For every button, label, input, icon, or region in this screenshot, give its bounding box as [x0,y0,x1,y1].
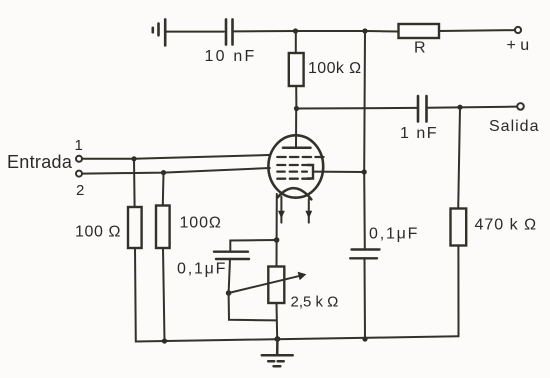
node I (cathode node) [274,237,280,243]
node D (output / 470k junction) [457,105,462,110]
resistor R4 470kΩ [451,107,467,336]
terminal Entrada 2 [76,171,82,177]
svg-text:0,1μF: 0,1μF [369,226,419,243]
wire: bottom rail [136,336,459,341]
resistor R2 100Ω (left) [128,159,142,342]
resistor R1 100kΩ (anode load) [289,31,304,109]
chassis ground (supply return, rotated left) [153,19,165,45]
svg-text:R: R [414,40,426,57]
wire: input 2 to tube [82,168,270,174]
tube V1 heater lead left with arrow [280,197,282,223]
svg-text:1 nF: 1 nF [400,125,438,142]
svg-text:100k Ω: 100k Ω [308,60,362,77]
wire: C 1nF to Salida terminal [428,107,517,108]
wire: cathode node to C 0.1µF top [230,240,276,251]
node B (junction top rail / screen feed) [362,28,367,33]
tube V1 anode lead [295,109,297,148]
node G (input1 / 100Ω junction) [131,156,136,161]
resistor R3 100Ω (right) [156,173,170,341]
svg-text:Entrada: Entrada [7,152,73,172]
terminal +U [515,27,521,33]
node A (junction top rail / 100k) [293,28,298,33]
svg-text:470 k Ω: 470 k Ω [475,217,538,234]
svg-text:1: 1 [75,137,83,154]
wire: input 1 to tube [82,155,269,159]
wire: node B to resistor R [365,30,398,33]
capacitor C 10nF [226,19,233,44]
wire: ground to C 10nF [166,31,224,33]
tube V1 grid 1 (dashed) [277,156,323,158]
svg-text:2,5 k Ω: 2,5 k Ω [291,294,339,311]
terminal Entrada 1 [76,156,82,162]
potentiometer P1 wiper arrow [229,276,300,293]
node K (rail / second 100Ω) [162,338,167,343]
ground symbol [262,339,293,366]
node J (wiper tap node) [226,290,232,296]
wire: screen node down to C 0.1µF [363,172,366,249]
wire: node B down to screen node (crosses anode rail) [363,31,366,172]
tube V1 envelope [268,135,323,197]
tube V1 heater lead right with arrow [308,199,310,223]
wire: tube cathode down [276,194,278,240]
svg-text:100Ω: 100Ω [180,215,222,232]
capacitor C 1nF (output coupling) [418,96,427,122]
svg-text:100 Ω: 100 Ω [75,224,121,241]
tube V1 grid 2 (dashed) [277,164,310,166]
wire: wiper node down and right to pot bottom [229,293,277,320]
svg-text:2: 2 [76,182,84,199]
tube V1 anode plate [283,147,311,150]
wire: C 0.1µF bottom to wiper node [229,259,230,293]
tube V1 screen bracket [308,165,313,179]
wire: anode node to C 1nF [297,107,418,110]
wire: node A to node B [296,30,366,32]
tube V1 cathode arch [278,188,312,199]
svg-text:Salida: Salida [489,118,539,135]
terminal Salida [517,103,524,110]
node H (input2 / 100Ω junction) [161,170,166,175]
wire: C 0.1µF to bottom rail [364,258,367,339]
node E (screen grid node) [362,169,367,174]
node F (rail junction) [362,336,367,341]
potentiometer P1 2.5kΩ [268,240,284,339]
wire: C 10nF to node A [234,30,296,32]
capacitor C 0.1µF (screen decoupling) [350,250,379,259]
svg-text:10 nF: 10 nF [205,48,257,65]
svg-text:0,1μF: 0,1μF [177,261,227,278]
node L (rail / ground stub) [275,336,281,342]
svg-text:+ u: + u [507,37,530,54]
resistor R [399,24,440,38]
wire: resistor R to +U terminal [439,29,515,32]
wire: screen bracket to node E [313,171,364,173]
capacitor C 0.1µF (cathode bypass) [214,252,249,259]
node C (anode node) [294,106,299,111]
tube V1 grid 4 (dashed) [277,178,310,180]
tube V1 grid 3 (dashed) [277,170,307,172]
